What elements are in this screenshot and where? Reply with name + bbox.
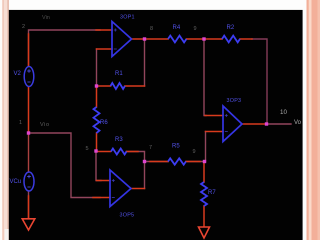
svg-text:R7: R7 [208,190,216,196]
svg-text:R6: R6 [100,120,108,126]
svg-text:R1: R1 [115,71,123,77]
svg-text:R5: R5 [172,144,180,150]
svg-text:9: 9 [193,149,196,155]
svg-text:3OP5: 3OP5 [120,213,135,219]
svg-text:VCu: VCu [10,179,22,185]
svg-text:Vin: Vin [42,15,50,21]
svg-text:10: 10 [280,109,287,116]
svg-text:R4: R4 [173,25,181,31]
svg-text:R2: R2 [227,25,235,31]
svg-text:1: 1 [19,120,22,126]
svg-text:9: 9 [194,26,197,32]
svg-text:3OP1: 3OP1 [120,14,135,20]
svg-text:8: 8 [150,26,153,32]
svg-text:7: 7 [149,145,152,151]
svg-text:5: 5 [86,146,89,152]
svg-text:Vo: Vo [294,120,302,126]
svg-text:V2: V2 [14,71,22,77]
svg-text:R3: R3 [115,137,123,143]
svg-text:2: 2 [22,24,25,30]
svg-text:Vio: Vio [40,122,50,128]
svg-text:3OP3: 3OP3 [227,98,242,104]
